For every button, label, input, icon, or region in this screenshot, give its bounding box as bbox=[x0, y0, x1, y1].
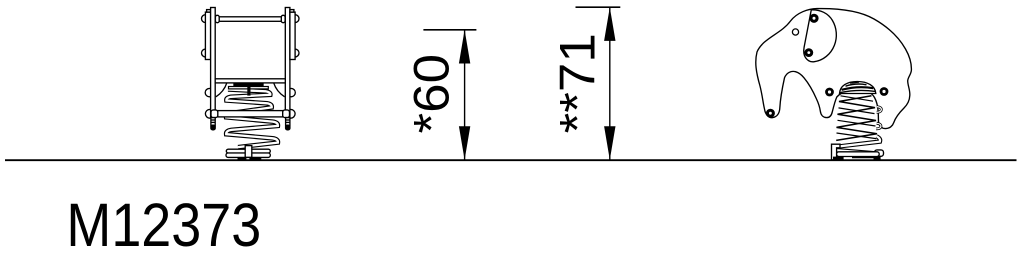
spring coil (side view) front lines bbox=[836, 96, 877, 141]
base feet bbox=[238, 157, 247, 159]
body bolt front bbox=[825, 88, 834, 97]
ear bolt lower bbox=[804, 48, 813, 57]
threaded stud right bbox=[286, 118, 290, 126]
seat gusset arc left bbox=[216, 83, 227, 97]
dim 60 arrow up bbox=[459, 30, 470, 64]
base feet bbox=[833, 157, 844, 160]
threaded stud left bbox=[211, 118, 215, 126]
handlebar bolt dome top-right bbox=[291, 15, 299, 23]
elephant eye bbox=[792, 29, 798, 35]
footrest bolt dome left bbox=[205, 109, 214, 118]
handlebar tube bbox=[219, 17, 282, 22]
bolt dome 2 right bbox=[291, 49, 299, 57]
right inner plate bbox=[285, 8, 290, 118]
dim 71 arrow up bbox=[604, 7, 615, 41]
base plate bbox=[837, 152, 880, 157]
seat gusset arc right bbox=[274, 83, 285, 97]
footrest end cap left bbox=[211, 110, 218, 118]
dim 60 arrow down bbox=[459, 126, 470, 160]
svg-text:**71: **71 bbox=[549, 33, 605, 133]
left inner plate bbox=[211, 8, 216, 118]
ground line bbox=[5, 159, 1017, 161]
dim 60 extension tick bbox=[423, 29, 476, 31]
spring top dome bbox=[840, 82, 876, 94]
spring base center stem bbox=[245, 146, 252, 158]
spring coil (front view) bbox=[226, 90, 278, 148]
dim 71 extension tick bbox=[576, 6, 621, 8]
base L-bracket bbox=[832, 144, 841, 160]
elephant ear bbox=[804, 10, 837, 62]
svg-text:*60: *60 bbox=[403, 54, 459, 134]
svg-text:M12373: M12373 bbox=[66, 192, 261, 253]
right outer plate top lug bbox=[290, 10, 294, 13]
handlebar end cap right bbox=[281, 15, 285, 22]
right outer plate bbox=[290, 12, 295, 59]
footrest tube bbox=[218, 111, 283, 117]
base right bump bbox=[875, 150, 884, 156]
spring top clamp plate bbox=[229, 87, 269, 89]
dome hatch bbox=[846, 84, 867, 86]
handlebar end cap left bbox=[215, 15, 219, 22]
handlebar bolt dome top-left bbox=[202, 15, 210, 23]
ear bolt upper bbox=[809, 14, 818, 23]
bolt dome 3 right bbox=[287, 88, 295, 96]
spring coil bottom turn bbox=[835, 136, 880, 155]
seat plate bbox=[215, 79, 285, 83]
spring base plate upper bbox=[226, 149, 270, 153]
footrest end cap right bbox=[283, 110, 290, 118]
elephant body outline bbox=[756, 9, 912, 129]
spring clamp stem bbox=[247, 86, 250, 96]
coil bump past rear leg edge upper bbox=[877, 107, 882, 113]
left outer plate bbox=[205, 12, 210, 59]
dim 71 line bbox=[609, 7, 611, 160]
trunk bolt bbox=[766, 109, 775, 118]
left outer plate top lug bbox=[207, 10, 211, 13]
spring base plate lower bbox=[226, 153, 270, 157]
dim 71 arrow down bbox=[604, 126, 615, 160]
dim 60 line bbox=[464, 30, 466, 160]
bolt dome 3 left bbox=[205, 88, 213, 96]
body bolt rear bbox=[880, 87, 889, 96]
coil bump past rear leg edge lower bbox=[876, 123, 881, 129]
spring top clamp dark bar bbox=[234, 84, 263, 87]
footrest bolt dome right bbox=[286, 109, 295, 118]
bolt dome 2 left bbox=[202, 49, 210, 57]
spring coil (side view) back lines bbox=[837, 96, 877, 139]
